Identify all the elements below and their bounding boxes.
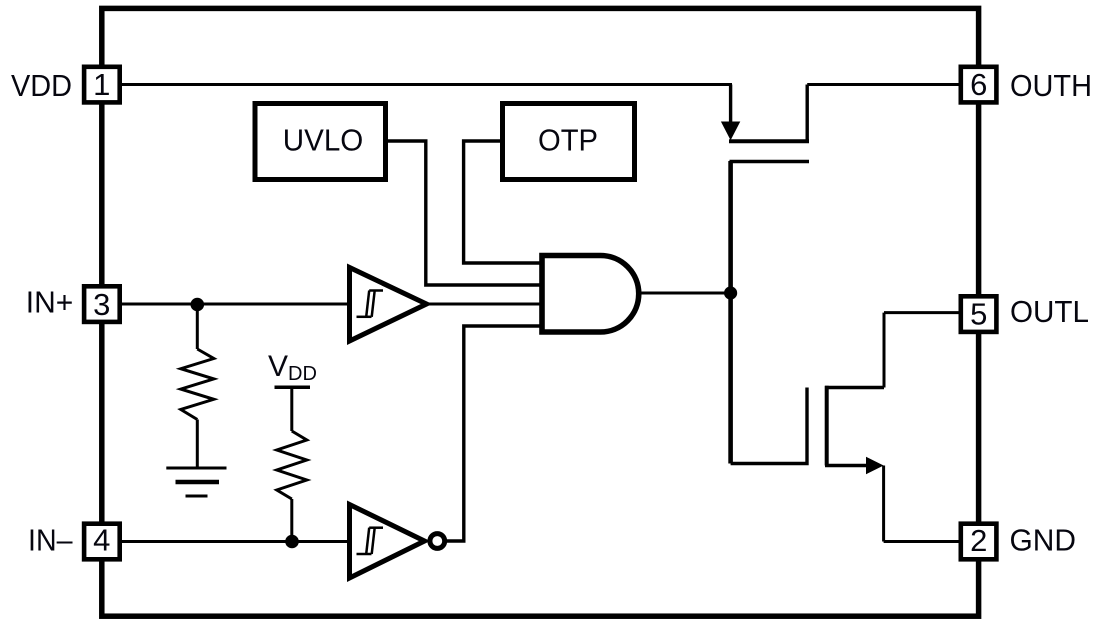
wire inverter output to AND input (446, 326, 542, 541)
IC boundary box (102, 8, 979, 616)
node IN+ junction (191, 298, 205, 312)
arrow into high-side FET (721, 122, 740, 141)
svg-text:1: 1 (93, 67, 110, 102)
wire Q2 source to pin 2 (884, 540, 959, 543)
pin 6 box (961, 67, 997, 103)
wire high-side FET source drop (729, 85, 732, 125)
wire IN- from pin 4 to inverter (122, 540, 350, 543)
ground (166, 468, 226, 496)
svg-text:OTP: OTP (538, 122, 598, 157)
svg-text:VDD: VDD (268, 350, 317, 385)
block UVLO (255, 104, 386, 180)
resistor R2 (277, 431, 307, 499)
wire Q2 source drop (882, 466, 885, 542)
wire Q2 drain to pin 5 (884, 311, 959, 314)
wire AND output (639, 292, 731, 295)
schmitt symbol in U2 (357, 528, 384, 554)
wire resistor R2 bottom lead (290, 499, 293, 542)
svg-text:VDD: VDD (11, 68, 72, 103)
wire Q2 gate hook (731, 388, 807, 464)
svg-text:2: 2 (970, 523, 987, 558)
AND gate (542, 256, 639, 333)
node gate junction (724, 286, 737, 299)
svg-text:GND: GND (1010, 522, 1077, 557)
net VDD bar (275, 386, 311, 390)
wire Q1 drain to pin 6 (807, 83, 958, 86)
wire Q1 drain rise (806, 85, 809, 142)
svg-text:UVLO: UVLO (283, 122, 364, 157)
wire IN+ from pin 3 to buffer (122, 303, 350, 306)
wire Q2 source bottom (825, 464, 868, 467)
svg-text:5: 5 (970, 297, 987, 332)
inverter bubble (430, 534, 445, 549)
svg-text:3: 3 (93, 287, 110, 322)
pin 5 box (961, 296, 997, 332)
arrow out of Q2 source (866, 457, 884, 474)
svg-text:OUTL: OUTL (1010, 294, 1089, 329)
pin 3 box (84, 286, 120, 322)
block OTP (503, 104, 635, 180)
wire Q2 drain rise to OUTL (883, 313, 886, 388)
wire OTP output to AND input (464, 141, 542, 263)
transistor Q1 gate bar (730, 160, 810, 164)
resistor R1 (181, 349, 214, 420)
node IN- junction (285, 535, 299, 549)
wire resistor R2 top lead (290, 388, 293, 431)
svg-text:4: 4 (93, 523, 110, 558)
wire buffer output to AND input (428, 303, 542, 306)
svg-text:IN–: IN– (28, 523, 73, 558)
wire resistor R1 top lead (196, 304, 199, 349)
svg-text:6: 6 (970, 67, 987, 102)
transistor Q2 channel bar (825, 386, 829, 466)
svg-text:IN+: IN+ (26, 285, 74, 320)
wire gate bus vertical (728, 161, 733, 464)
pin 2 box (961, 524, 997, 560)
wire VDD rail from pin 1 to high-side FET (122, 83, 732, 86)
transistor Q1 channel bar (729, 139, 809, 143)
schmitt symbol in U1 (357, 291, 384, 317)
pin 1 box (84, 67, 120, 103)
schmitt buffer U1 (350, 268, 427, 342)
pin 4 box (84, 524, 120, 560)
schmitt inverter U2 (350, 505, 425, 579)
wire UVLO output to AND input (388, 141, 542, 285)
svg-text:OUTH: OUTH (1010, 68, 1092, 103)
wire Q2 drain top (825, 386, 884, 389)
wire resistor R1 bottom lead (196, 420, 199, 469)
